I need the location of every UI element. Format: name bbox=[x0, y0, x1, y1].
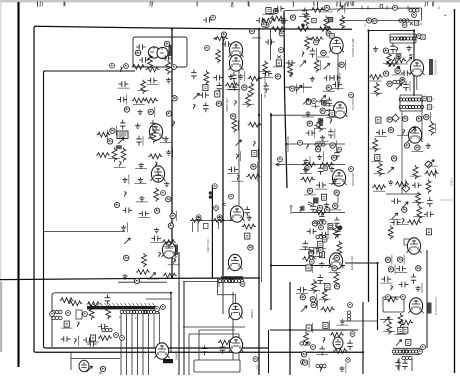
svg-text:F: F bbox=[119, 315, 121, 319]
svg-text:TV-CHASSIS: TV-CHASSIS bbox=[352, 95, 355, 110]
svg-text:VERT OSC: VERT OSC bbox=[206, 239, 210, 252]
svg-text:115V: 115V bbox=[258, 364, 260, 370]
svg-text:SOUND IF AMP: SOUND IF AMP bbox=[351, 38, 355, 57]
svg-text:AUDIO OUTPUT: AUDIO OUTPUT bbox=[435, 296, 438, 315]
svg-text:SYNC-AGC KEYER: SYNC-AGC KEYER bbox=[263, 75, 267, 98]
svg-text:F: F bbox=[135, 316, 137, 320]
svg-text:VIDEO DET: VIDEO DET bbox=[225, 98, 229, 112]
svg-text:6AU6 AUDIO: 6AU6 AUDIO bbox=[351, 256, 354, 270]
svg-text:M1: M1 bbox=[99, 371, 103, 375]
svg-text:HOR AFC: HOR AFC bbox=[173, 250, 177, 262]
svg-text:4BN6 SOUND: 4BN6 SOUND bbox=[435, 59, 438, 75]
svg-text:NOISE GATE: NOISE GATE bbox=[286, 136, 290, 152]
svg-text:DAMPER: DAMPER bbox=[176, 350, 179, 360]
svg-text:WIDTH: WIDTH bbox=[250, 309, 254, 318]
svg-text:PAGE 2: PAGE 2 bbox=[451, 177, 454, 186]
svg-text:RATIO DET: RATIO DET bbox=[351, 172, 355, 186]
